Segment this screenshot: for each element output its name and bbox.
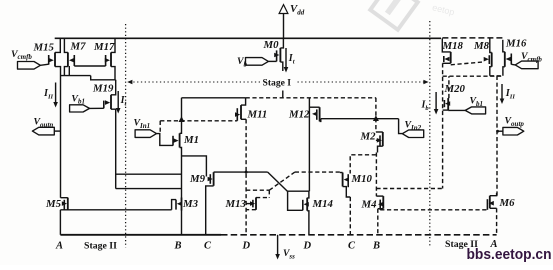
input V_In2 label [405, 120, 422, 132]
dashed wire M2 drain vertical [375, 98, 377, 132]
svg-text:Voutp: Voutp [505, 116, 525, 128]
Stage I / Stage II dotted boundary line (right) [429, 21, 431, 248]
transistor M1 label [183, 134, 199, 146]
node B (right) [372, 241, 380, 252]
transistor M15 label [33, 42, 55, 54]
node B (left) [174, 241, 182, 252]
transistor M11 label [247, 109, 268, 121]
wire M9 drain line [214, 171, 268, 174]
svg-text:Ib: Ib [421, 100, 430, 112]
Vdd rail (solid segment) [55, 37, 441, 39]
wire M12 source line to V_In2 node [321, 118, 399, 120]
input V_In1 flag [135, 130, 156, 138]
svg-text:M13: M13 [225, 198, 247, 210]
svg-text:bbs.eetop.cn: bbs.eetop.cn [467, 246, 552, 263]
transistor M9 [206, 172, 214, 235]
Voutp output flag [496, 127, 524, 135]
Vb1 input (right) label [470, 96, 484, 108]
svg-text:D: D [242, 241, 251, 252]
svg-text:Vb1: Vb1 [71, 93, 85, 105]
svg-text:M3: M3 [182, 198, 199, 210]
wire M5 source to Vss rail [59, 210, 61, 235]
svg-text:M9: M9 [189, 173, 206, 185]
dashed M10 drain line [295, 171, 340, 173]
svg-text:III: III [43, 88, 54, 100]
Vb1 input (left) flag [70, 105, 104, 112]
transistor M5 label [45, 198, 62, 210]
svg-text:M4: M4 [361, 199, 378, 211]
svg-text:Vb1: Vb1 [470, 96, 484, 108]
dashed wire M2 source to M4 drain [375, 153, 377, 197]
svg-text:M5: M5 [45, 198, 62, 210]
svg-text:C: C [348, 241, 356, 252]
dashed M8 gate lead [451, 62, 483, 65]
node B wire (M19 source to M3 drain) [116, 188, 182, 190]
transistor M3 [172, 198, 182, 235]
svg-text:eetop: eetop [431, 2, 455, 17]
transistor M7 [64, 38, 74, 75]
transistor M5 [61, 198, 68, 210]
svg-text:M15: M15 [33, 42, 55, 54]
Vcmfb input (right) flag [511, 61, 538, 69]
dashed node D vertical (M11 source to Vss rail) [245, 119, 247, 235]
svg-text:M16: M16 [505, 38, 527, 50]
svg-text:Vss: Vss [283, 248, 295, 260]
transistor M16 [503, 38, 512, 76]
svg-text:M17: M17 [93, 41, 115, 53]
label Stage II (right) [445, 239, 478, 250]
node A (left) [55, 241, 63, 252]
svg-text:M6: M6 [499, 197, 516, 209]
dashed wire M2 source to M10 gate [350, 155, 376, 174]
transistor M7 label [70, 41, 87, 53]
dashed wire M20 source to M4 drain [376, 188, 443, 190]
current arrow I_t (Stage I tail) [284, 48, 295, 73]
svg-text:M12: M12 [288, 109, 310, 121]
dashed column M18 source / M20 wires [442, 63, 444, 188]
node B wire upper (M19 source to M1 source) [116, 173, 182, 175]
dashed gate mirror line M4 to M6 [380, 209, 487, 211]
dashed branch to M13 drain [246, 189, 269, 191]
Stage I span dotted arrow (left half) [127, 80, 260, 85]
transistor M14 label [312, 198, 334, 210]
wire M12 drain / bus down to M14 drain [308, 98, 310, 191]
wire M15 drain to Voutn node and M5 drain [55, 67, 61, 198]
dashed wire M20 drain up to bias link [448, 76, 450, 98]
svg-text:VIn1: VIn1 [134, 118, 151, 130]
dashed gate line to M11 [160, 120, 237, 122]
input V_In1 label [134, 118, 151, 130]
transistor M19 [104, 80, 116, 189]
wire M5/M3 gate mirror line [60, 209, 171, 211]
wire cross-couple diagonal (solid, M9 to M14 gate) [268, 172, 288, 191]
transistor M10 label [351, 173, 373, 185]
transistor M0 [274, 38, 283, 71]
transistor M2 label [360, 131, 377, 143]
transistor M2 [376, 132, 383, 153]
Vcmfb input (right) label [521, 51, 542, 63]
dashed wire V_In1 node up to M11 gate line [159, 121, 161, 134]
Vcmfb input (left) flag [18, 62, 49, 70]
dashed bias link line (M18/M8/M16 drains) [443, 75, 503, 77]
svg-text:B: B [372, 241, 380, 252]
node A (right) [490, 239, 498, 250]
dashed Voutp node vertical [496, 76, 498, 197]
svg-text:Vcmfb: Vcmfb [11, 49, 32, 61]
Vb input flag [246, 58, 277, 66]
node D (right) [303, 241, 312, 252]
transistor M13 label [225, 198, 247, 210]
label Stage I [263, 78, 292, 89]
svg-text:Stage I: Stage I [263, 78, 292, 89]
Vdd supply symbol [279, 3, 305, 38]
transistor M12 [309, 107, 320, 121]
current arrow I_II (left) [43, 83, 58, 108]
Vb1 input (right) flag [448, 107, 485, 114]
transistor M4 label [361, 199, 378, 211]
Vdd rail (dashed segment, right) [442, 37, 502, 39]
Vss supply arrow [275, 235, 295, 261]
dashed cross-couple diagonal (M13 to M10 drain line) [269, 172, 295, 190]
current arrow I_b [421, 92, 439, 115]
transistor M12 label [288, 109, 310, 121]
current arrow I_t (beside M19) [116, 91, 127, 114]
transistor M1 [173, 98, 182, 198]
label Stage II (left) [84, 241, 117, 252]
transistor M3 label [182, 198, 199, 210]
junction arrow M1 drain current (up) [179, 116, 185, 122]
dashed wire M6 source to Vss rail [496, 208, 498, 235]
wire V_In1 to M1 gate [157, 134, 174, 146]
watermark bbs.eetop.cn [467, 246, 552, 263]
wire M1 source branch to M9 gate [182, 156, 207, 177]
wire M7-M17 gate link [74, 65, 105, 67]
transistor M18 [442, 38, 450, 63]
transistor M13 (dashed leads) [246, 197, 269, 209]
node D (left) [242, 241, 251, 252]
transistor M6 [487, 193, 496, 210]
transistor M14 [287, 191, 309, 235]
svg-text:M7: M7 [70, 41, 87, 53]
svg-text:M11: M11 [247, 109, 268, 121]
svg-text:III: III [505, 88, 516, 100]
svg-text:C: C [204, 241, 212, 252]
Stage I cascode bus (dashed right part) [246, 97, 376, 99]
junction arrow M2 drain current (up) [373, 115, 379, 121]
svg-text:M2: M2 [360, 131, 377, 143]
wire gate link drop to bias node [68, 66, 70, 76]
transistor M8 label [473, 40, 490, 52]
transistor M9 label [189, 173, 206, 185]
transistor M19 label [92, 83, 114, 95]
Vb1 input (left) label [71, 93, 85, 105]
svg-text:M8: M8 [473, 40, 490, 52]
svg-text:Stage II: Stage II [84, 241, 117, 252]
wire bias staircase to M19 drain [91, 76, 116, 80]
transistor M18 label [442, 40, 464, 52]
current arrow I_II (right) [500, 84, 516, 104]
svg-text:M10: M10 [351, 173, 373, 185]
svg-text:B: B [174, 241, 182, 252]
transistor M10 [340, 173, 351, 198]
svg-text:M20: M20 [444, 83, 466, 95]
wire down to V_In2 flag [399, 119, 403, 134]
svg-text:Vdd: Vdd [290, 3, 305, 16]
svg-text:M14: M14 [312, 198, 334, 210]
dashed M13 drain lead up [268, 190, 270, 197]
transistor M8 [484, 38, 492, 76]
Voutp output label [505, 116, 525, 128]
node C (left) [204, 241, 212, 252]
svg-text:A: A [55, 241, 63, 252]
node C (right) [348, 241, 356, 252]
transistor M20 [443, 98, 451, 110]
svg-text:It: It [288, 53, 295, 65]
Stage I span dotted arrow (right half) [298, 80, 429, 85]
transistor M11 [235, 98, 246, 121]
transistor M17 label [93, 41, 115, 53]
wire M0 drain to Stage I bus (below Stage I text) [282, 91, 284, 98]
svg-text:M19: M19 [92, 83, 114, 95]
Vcmfb input (left) label [11, 49, 32, 61]
transistor M17 [105, 38, 115, 80]
Vss rail (solid segment) [60, 234, 221, 236]
transistor M20 label [444, 83, 466, 95]
input V_In2 flag [402, 130, 423, 138]
Voutn output flag [32, 127, 60, 135]
svg-text:D: D [303, 241, 312, 252]
Stage I cascode bus (solid left part) [182, 97, 246, 99]
Voutn output label [34, 117, 54, 129]
dashed node C vertical (M10 source to Vss rail) [349, 197, 351, 235]
transistor M15 [49, 38, 61, 66]
dashed link M8-M16 bottoms [490, 75, 503, 77]
Vss rail (dashed segment) [221, 234, 497, 236]
transistor M6 label [499, 197, 516, 209]
Vb input label [237, 56, 248, 68]
svg-text:M18: M18 [442, 40, 464, 52]
svg-text:M1: M1 [183, 134, 199, 146]
transistor M16 label [505, 38, 527, 50]
svg-text:M0: M0 [263, 39, 280, 51]
Stage I / Stage II dotted boundary line (left) [125, 24, 127, 248]
wire bias node horizontal (joins Voutn wire) [61, 75, 91, 77]
transistor M4 (dashed context) [376, 196, 383, 235]
transistor M0 label [263, 39, 280, 51]
